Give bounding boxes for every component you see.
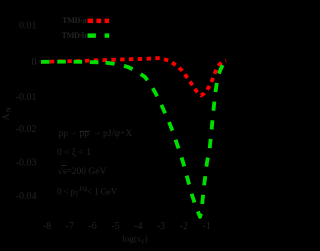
curve TMD-b flat section (green dashed, drawn over red)	[41, 60, 98, 65]
svg-text:pp: pp	[59, 129, 69, 139]
svg-text:-4: -4	[134, 221, 142, 232]
legend marker TMD-a (red dotted sample)	[88, 19, 110, 24]
svg-text:→: →	[69, 127, 78, 137]
svg-text:-0.02: -0.02	[16, 124, 37, 135]
svg-text:0.01: 0.01	[19, 21, 37, 32]
svg-text:-6: -6	[88, 221, 96, 232]
svg-text:-7: -7	[66, 221, 74, 232]
svg-text:TMD-b: TMD-b	[62, 31, 87, 40]
curve TMD-b dip section (green dashed, drawn over red)	[94, 61, 228, 217]
svg-text:0: 0	[32, 57, 37, 68]
annotation line 1: pp -> pbar p -> p J/psi + X	[59, 127, 133, 140]
svg-text:-0.03: -0.03	[16, 158, 37, 169]
svg-text:-2: -2	[180, 221, 188, 232]
svg-text:-3: -3	[157, 221, 165, 232]
svg-text:0 < ξ < 1: 0 < ξ < 1	[57, 148, 91, 158]
svg-text:-0.04: -0.04	[16, 191, 37, 202]
legend marker TMD-b (green dashed sample)	[88, 33, 110, 37]
svg-text:-0.01: -0.01	[16, 92, 37, 103]
svg-text:-8: -8	[43, 221, 51, 232]
svg-text:-1: -1	[202, 221, 210, 232]
curve TMD-a (red dotted, drawn beneath green)	[41, 58, 226, 95]
svg-text:-5: -5	[111, 221, 119, 232]
svg-text:TMD-a: TMD-a	[62, 16, 87, 25]
svg-text:√s=200 GeV: √s=200 GeV	[58, 166, 107, 177]
svg-text:pp: pp	[80, 129, 90, 139]
svg-text:→: →	[93, 127, 102, 137]
svg-text:pJ/ψ+X: pJ/ψ+X	[103, 129, 132, 139]
